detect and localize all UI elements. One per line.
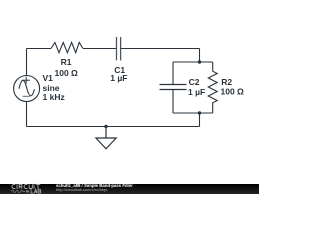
wire top rail mid segment xyxy=(83,48,116,50)
wire node column upper xyxy=(199,49,201,63)
svg-text:1 µF: 1 µF xyxy=(110,73,127,83)
wire V1 top lead xyxy=(26,49,28,76)
svg-text:R1: R1 xyxy=(61,57,72,67)
wire parallel bottom bar xyxy=(173,112,213,114)
ground xyxy=(96,127,116,149)
resistor R2 xyxy=(208,62,217,113)
node B junction dot bottom xyxy=(198,111,201,114)
wire V1 bottom lead xyxy=(26,102,28,127)
resistor R1 xyxy=(51,42,83,52)
svg-text:V1: V1 xyxy=(43,73,54,83)
ground junction dot xyxy=(104,125,107,128)
CircuitLab logo xyxy=(12,184,40,188)
svg-text:1 kHz: 1 kHz xyxy=(43,92,65,102)
capacitor C1 xyxy=(117,37,121,60)
svg-text:100 Ω: 100 Ω xyxy=(221,86,245,96)
wire parallel top bar xyxy=(173,61,213,63)
node A junction dot top xyxy=(198,60,201,63)
svg-text:R2: R2 xyxy=(221,77,232,87)
svg-text:http://circuitlab.com/c/xs3dqs: http://circuitlab.com/c/xs3dqs xyxy=(56,187,107,192)
wire top rail left segment xyxy=(27,48,52,50)
footer bar xyxy=(0,184,259,194)
svg-text:1 µF: 1 µF xyxy=(188,87,205,97)
wire node column lower xyxy=(199,113,201,127)
wire top rail right segment xyxy=(121,48,199,50)
voltage source V1 xyxy=(14,76,40,102)
wire bottom rail xyxy=(27,126,200,128)
capacitor C2 xyxy=(160,62,187,113)
svg-text:C2: C2 xyxy=(189,77,200,87)
svg-text:100 Ω: 100 Ω xyxy=(55,68,79,78)
